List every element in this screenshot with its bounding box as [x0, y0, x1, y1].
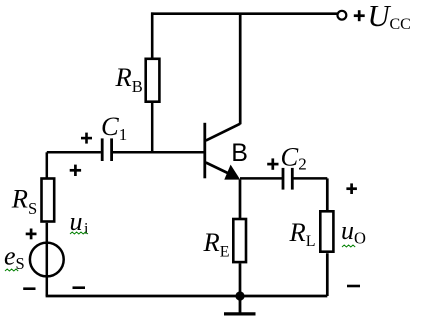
ground: [224, 296, 256, 314]
junction dot: [235, 291, 244, 300]
resistor RE: [233, 219, 246, 262]
svg-text:B: B: [231, 139, 248, 167]
wire left vertical through source: [46, 223, 49, 296]
terminal +Ucc: [338, 11, 347, 20]
resistor RS: [42, 179, 55, 222]
resistor RB: [146, 59, 160, 102]
squiggle under eS: [5, 269, 18, 271]
wire right vertical lower: [326, 253, 329, 296]
plus sign uo: [346, 183, 357, 194]
source eS: [30, 243, 64, 277]
plus sign at C1: [81, 133, 92, 144]
wire RB branch lower: [151, 103, 154, 152]
transistor Q1 base bar: [203, 123, 206, 179]
minus sign uo: [347, 285, 360, 288]
plus sign at C2: [267, 158, 278, 169]
minus sign left: [23, 287, 35, 290]
wire collector diagonal: [206, 124, 240, 141]
wire left vertical upper: [46, 152, 49, 178]
plus sign ui: [70, 165, 81, 176]
wire C2 to RL: [294, 177, 328, 180]
capacitor C2: [283, 168, 292, 190]
transistor Q1 emitter with arrow: [206, 163, 240, 180]
svg-text:U: U: [368, 0, 392, 33]
wire RE to ground rail: [239, 263, 242, 296]
wire right vertical upper: [326, 178, 329, 210]
squiggle under uo: [342, 245, 355, 247]
capacitor C1: [102, 138, 111, 161]
squiggle under ui: [70, 232, 88, 234]
wire emitter to C2: [240, 177, 282, 180]
wire collector vertical: [239, 14, 242, 125]
label +Ucc: [354, 0, 411, 33]
wire bottom rail: [46, 295, 328, 298]
svg-text:CC: CC: [390, 16, 411, 33]
minus sign ui: [73, 286, 86, 289]
wire RB branch upper: [151, 12, 154, 59]
wire emitter to RE: [239, 180, 242, 219]
wire base: [112, 151, 205, 154]
plus sign eS: [26, 229, 37, 240]
resistor RL: [320, 211, 333, 251]
wire input left: [47, 151, 101, 154]
wire top rail: [151, 12, 337, 15]
